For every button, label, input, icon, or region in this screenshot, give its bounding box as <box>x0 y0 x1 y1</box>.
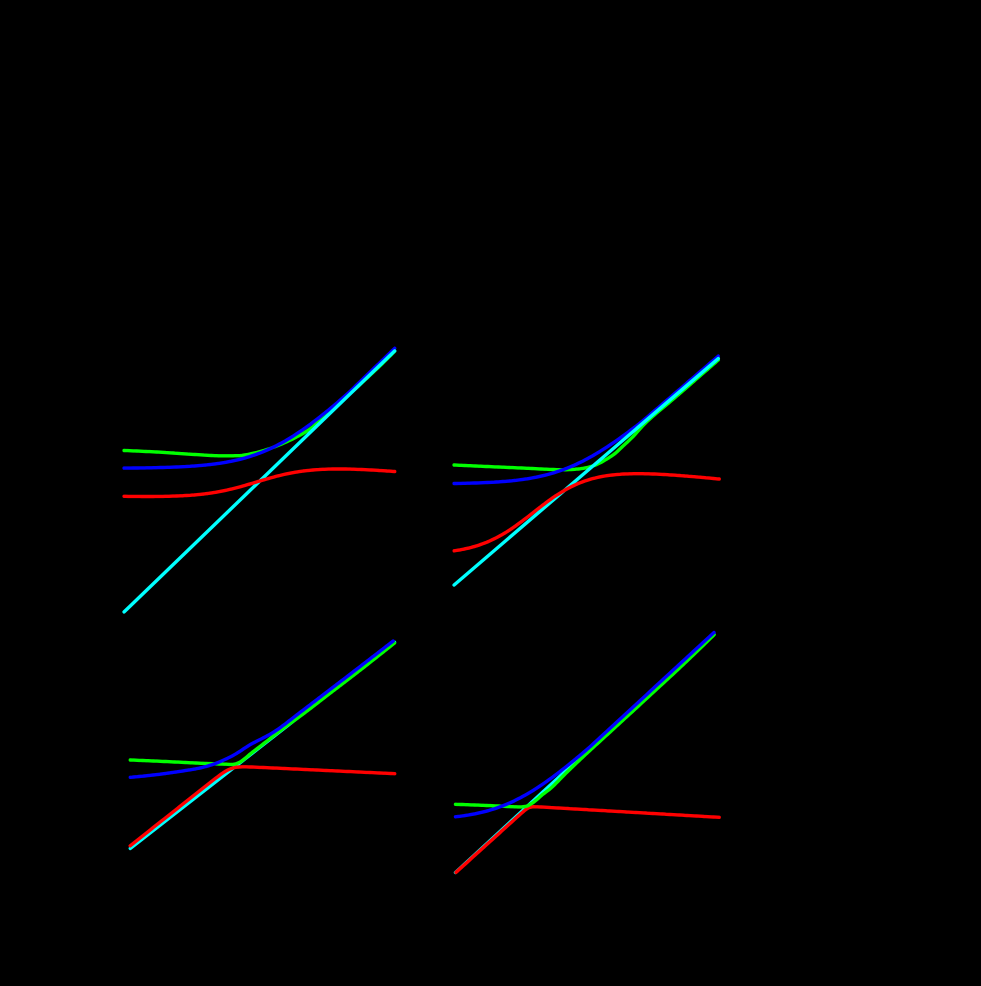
TR blue curve <box>454 356 718 483</box>
TR red curve <box>454 474 719 551</box>
BL green curve <box>130 643 394 764</box>
TL blue curve <box>124 348 395 468</box>
TL green curve <box>124 351 395 456</box>
TL cyan identity line <box>124 351 395 612</box>
BR blue curve <box>456 633 715 817</box>
BL red curve <box>130 767 395 846</box>
BL blue curve <box>130 641 393 777</box>
BL cyan identity line <box>130 642 394 848</box>
TL red curve <box>124 469 395 497</box>
BR red curve <box>456 807 719 873</box>
TR cyan identity line <box>454 359 718 586</box>
BR cyan identity line <box>456 634 715 872</box>
BR green curve <box>456 635 715 807</box>
TR green curve <box>454 360 718 470</box>
